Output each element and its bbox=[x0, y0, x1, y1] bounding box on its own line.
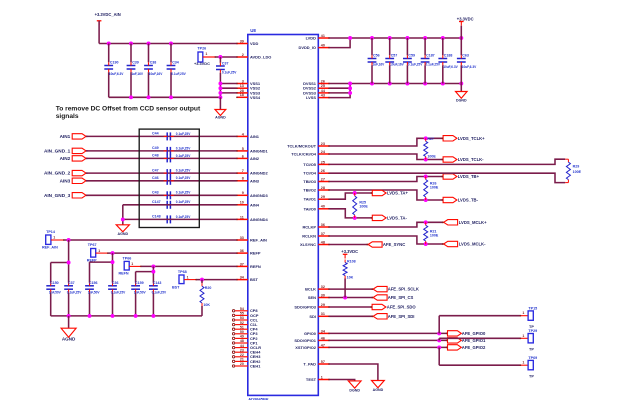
svg-text:1nF,50V: 1nF,50V bbox=[88, 291, 101, 295]
svg-text:TEST: TEST bbox=[306, 377, 317, 382]
svg-text:To remove DC Offset from CCD s: To remove DC Offset from CCD sensor outp… bbox=[56, 106, 201, 113]
svg-text:+3.3VDC: +3.3VDC bbox=[341, 249, 358, 254]
svg-text:C36: C36 bbox=[112, 281, 119, 285]
svg-text:25: 25 bbox=[321, 160, 325, 164]
svg-text:TP14: TP14 bbox=[46, 230, 56, 234]
svg-text:100E: 100E bbox=[430, 233, 439, 237]
svg-text:TCLK/MCKOUT: TCLK/MCKOUT bbox=[287, 144, 316, 149]
svg-text:SDI: SDI bbox=[309, 314, 316, 319]
svg-text:55: 55 bbox=[240, 312, 244, 316]
svg-text:AIN_GND_3: AIN_GND_3 bbox=[44, 193, 71, 198]
svg-text:LVDS_TB+: LVDS_TB+ bbox=[458, 174, 480, 179]
svg-text:1: 1 bbox=[522, 334, 524, 338]
svg-text:44: 44 bbox=[240, 344, 244, 348]
svg-text:10K: 10K bbox=[203, 303, 210, 307]
svg-text:10K: 10K bbox=[347, 276, 354, 280]
svg-text:C159: C159 bbox=[135, 281, 144, 285]
svg-text:AFE_SPI_SCLK: AFE_SPI_SCLK bbox=[388, 287, 419, 292]
svg-text:XLSYNC: XLSYNC bbox=[300, 242, 316, 247]
svg-text:C38: C38 bbox=[150, 60, 157, 64]
svg-text:36: 36 bbox=[240, 249, 244, 253]
svg-text:40: 40 bbox=[321, 205, 325, 209]
svg-text:LVDS_TCLK+: LVDS_TCLK+ bbox=[458, 136, 485, 141]
svg-text:10uF,6.3V: 10uF,6.3V bbox=[443, 65, 458, 69]
svg-text:25: 25 bbox=[321, 84, 325, 88]
svg-text:AIN2: AIN2 bbox=[250, 156, 260, 161]
svg-text:C49: C49 bbox=[152, 146, 159, 150]
svg-text:1: 1 bbox=[131, 262, 133, 266]
svg-text:+3.3VDC_AIN: +3.3VDC_AIN bbox=[95, 12, 121, 17]
svg-text:26: 26 bbox=[321, 169, 325, 173]
svg-text:LVDS_TA-: LVDS_TA- bbox=[387, 215, 407, 220]
svg-text:0.1uF,25V: 0.1uF,25V bbox=[176, 154, 191, 158]
svg-text:1nF,50V: 1nF,50V bbox=[49, 291, 62, 295]
svg-text:2: 2 bbox=[242, 53, 244, 57]
svg-text:0.1uF,25V: 0.1uF,25V bbox=[426, 62, 441, 66]
svg-text:LVDS_MCLK+: LVDS_MCLK+ bbox=[459, 220, 487, 225]
svg-text:TBI/O2: TBI/O2 bbox=[303, 188, 316, 193]
svg-text:C48: C48 bbox=[152, 154, 159, 158]
svg-text:AINGND4: AINGND4 bbox=[250, 217, 269, 222]
svg-text:41: 41 bbox=[321, 34, 325, 38]
svg-text:REFN: REFN bbox=[250, 264, 261, 269]
svg-text:1uF,16V: 1uF,16V bbox=[131, 72, 144, 76]
svg-text:28: 28 bbox=[321, 186, 325, 190]
svg-text:XST/GPIO2: XST/GPIO2 bbox=[295, 345, 317, 350]
svg-text:C57: C57 bbox=[391, 54, 398, 58]
svg-text:21: 21 bbox=[240, 358, 244, 362]
svg-text:100E: 100E bbox=[430, 185, 439, 189]
svg-text:LVDS_TCLK-: LVDS_TCLK- bbox=[458, 157, 484, 162]
svg-text:BST: BST bbox=[172, 286, 180, 290]
svg-text:57: 57 bbox=[321, 360, 325, 364]
svg-text:1: 1 bbox=[321, 375, 323, 379]
svg-text:10uF,16V: 10uF,16V bbox=[390, 62, 405, 66]
svg-text:GPIO0: GPIO0 bbox=[304, 331, 317, 336]
svg-text:C39: C39 bbox=[132, 60, 139, 64]
svg-text:CEH1: CEH1 bbox=[250, 363, 261, 368]
svg-text:10uF,6.3V: 10uF,6.3V bbox=[462, 65, 477, 69]
svg-text:40: 40 bbox=[321, 44, 325, 48]
svg-text:51: 51 bbox=[240, 325, 244, 329]
svg-text:29: 29 bbox=[321, 195, 325, 199]
svg-text:RCLKP: RCLKP bbox=[302, 225, 316, 230]
svg-text:53: 53 bbox=[240, 316, 244, 320]
svg-text:49: 49 bbox=[240, 335, 244, 339]
svg-text:C148: C148 bbox=[152, 215, 161, 219]
svg-text:U8: U8 bbox=[250, 28, 256, 33]
svg-text:TP66: TP66 bbox=[123, 256, 132, 260]
svg-text:1nF,50V: 1nF,50V bbox=[134, 291, 147, 295]
svg-text:31: 31 bbox=[321, 312, 325, 316]
svg-text:0.1uF,25V: 0.1uF,25V bbox=[176, 132, 191, 136]
svg-text:37: 37 bbox=[321, 232, 325, 236]
svg-text:10uF,6.3V: 10uF,6.3V bbox=[109, 72, 124, 76]
svg-text:22: 22 bbox=[240, 353, 244, 357]
svg-text:43: 43 bbox=[321, 94, 325, 98]
svg-text:0.1uF,25V: 0.1uF,25V bbox=[67, 291, 82, 295]
svg-text:C37: C37 bbox=[68, 281, 75, 285]
svg-text:37: 37 bbox=[240, 262, 244, 266]
svg-text:0.1uF,25V: 0.1uF,25V bbox=[408, 62, 423, 66]
svg-text:0.1uF,25V: 0.1uF,25V bbox=[171, 72, 186, 76]
svg-text:AGND: AGND bbox=[215, 116, 226, 120]
svg-text:1: 1 bbox=[522, 311, 524, 315]
svg-text:5: 5 bbox=[242, 147, 244, 151]
svg-text:AFE_SPI_CS: AFE_SPI_CS bbox=[388, 295, 414, 300]
svg-text:AGND: AGND bbox=[118, 232, 129, 236]
svg-text:TP68: TP68 bbox=[178, 270, 187, 274]
svg-text:C44: C44 bbox=[152, 132, 159, 136]
svg-text:27: 27 bbox=[321, 177, 325, 181]
svg-text:AINGND1: AINGND1 bbox=[250, 148, 269, 153]
svg-text:VSS4: VSS4 bbox=[250, 95, 261, 100]
svg-text:SDO/GPIO1: SDO/GPIO1 bbox=[294, 338, 316, 343]
svg-text:AIN2: AIN2 bbox=[60, 156, 71, 161]
svg-text:1uF,16V: 1uF,16V bbox=[372, 62, 385, 66]
svg-text:C59: C59 bbox=[408, 54, 415, 58]
svg-text:LVDD: LVDD bbox=[306, 36, 317, 41]
svg-text:50: 50 bbox=[240, 330, 244, 334]
svg-text:AFE_SPI_SDO: AFE_SPI_SDO bbox=[387, 305, 417, 310]
svg-text:AIN4: AIN4 bbox=[250, 202, 260, 207]
svg-text:36: 36 bbox=[321, 223, 325, 227]
svg-text:100E: 100E bbox=[573, 170, 582, 174]
svg-text:AIN_GND_1: AIN_GND_1 bbox=[44, 148, 71, 153]
svg-text:52: 52 bbox=[240, 321, 244, 325]
svg-text:1: 1 bbox=[98, 249, 100, 253]
svg-text:TP: TP bbox=[529, 374, 534, 378]
svg-text:C190: C190 bbox=[110, 60, 119, 64]
svg-text:AIN1: AIN1 bbox=[250, 134, 260, 139]
svg-text:BCLK: BCLK bbox=[305, 287, 316, 292]
svg-text:C43: C43 bbox=[152, 191, 159, 195]
svg-text:AGND: AGND bbox=[373, 388, 384, 392]
svg-text:R20: R20 bbox=[205, 286, 212, 290]
svg-text:BST: BST bbox=[250, 277, 258, 282]
svg-text:AIN_GND_2: AIN_GND_2 bbox=[44, 171, 71, 176]
svg-text:TAI/O1: TAI/O1 bbox=[304, 197, 317, 202]
svg-text:C143: C143 bbox=[153, 281, 162, 285]
svg-text:10: 10 bbox=[240, 201, 244, 205]
svg-text:DGND: DGND bbox=[349, 388, 360, 392]
svg-text:AFE_SYNC: AFE_SYNC bbox=[383, 242, 405, 247]
svg-text:DGND: DGND bbox=[456, 99, 467, 103]
svg-text:LVDS_MCLK-: LVDS_MCLK- bbox=[459, 242, 486, 247]
svg-text:AFE_GPIO0: AFE_GPIO0 bbox=[462, 331, 486, 336]
svg-text:AINGND3: AINGND3 bbox=[250, 193, 269, 198]
svg-text:C187: C187 bbox=[426, 54, 435, 58]
svg-text:48: 48 bbox=[321, 240, 325, 244]
svg-text:TP29: TP29 bbox=[528, 329, 537, 333]
svg-text:REF_AIN: REF_AIN bbox=[42, 246, 58, 250]
svg-text:LVDS_TA+: LVDS_TA+ bbox=[387, 191, 408, 196]
svg-text:29: 29 bbox=[321, 303, 325, 307]
svg-text:C56: C56 bbox=[373, 54, 380, 58]
svg-text:C156: C156 bbox=[89, 281, 98, 285]
svg-text:TP15: TP15 bbox=[528, 307, 537, 311]
svg-text:C63: C63 bbox=[462, 54, 469, 58]
svg-text:0.1uF,25V: 0.1uF,25V bbox=[176, 191, 191, 195]
svg-text:REFN: REFN bbox=[119, 272, 129, 276]
svg-text:0.1uF,25V: 0.1uF,25V bbox=[176, 215, 191, 219]
svg-text:100E: 100E bbox=[359, 205, 368, 209]
svg-text:TP: TP bbox=[529, 347, 534, 351]
svg-text:LVSS: LVSS bbox=[306, 95, 316, 100]
svg-text:18: 18 bbox=[240, 93, 244, 97]
svg-text:54: 54 bbox=[240, 307, 244, 311]
svg-text:R27: R27 bbox=[427, 137, 434, 141]
svg-text:7: 7 bbox=[242, 169, 244, 173]
svg-text:AFE_SPI_SDI: AFE_SPI_SDI bbox=[388, 314, 415, 319]
svg-text:0.1uF,25V: 0.1uF,25V bbox=[176, 146, 191, 150]
svg-text:RCLKN: RCLKN bbox=[302, 234, 316, 239]
svg-text:9: 9 bbox=[242, 191, 244, 195]
svg-text:10uF,16V: 10uF,16V bbox=[149, 72, 164, 76]
svg-text:20: 20 bbox=[240, 362, 244, 366]
svg-text:AFE_GPIO2: AFE_GPIO2 bbox=[462, 345, 486, 350]
svg-text:AIN1: AIN1 bbox=[60, 134, 71, 139]
svg-text:LVDS_TB-: LVDS_TB- bbox=[458, 198, 479, 203]
svg-text:1: 1 bbox=[53, 235, 55, 239]
svg-text:C47: C47 bbox=[152, 168, 159, 172]
svg-text:1: 1 bbox=[205, 52, 207, 56]
svg-text:0.1uF,25V: 0.1uF,25V bbox=[111, 291, 126, 295]
svg-text:DVDD_IO: DVDD_IO bbox=[298, 45, 316, 50]
svg-text:6: 6 bbox=[242, 154, 244, 158]
svg-text:R29: R29 bbox=[573, 164, 580, 168]
svg-text:TCI/O5: TCI/O5 bbox=[303, 162, 316, 167]
svg-text:TP67: TP67 bbox=[88, 243, 97, 247]
svg-text:28: 28 bbox=[240, 89, 244, 93]
svg-text:+3.3VDC: +3.3VDC bbox=[457, 16, 474, 21]
svg-text:32: 32 bbox=[321, 285, 325, 289]
svg-text:0.1uF,25V: 0.1uF,25V bbox=[176, 176, 191, 180]
svg-text:11: 11 bbox=[240, 215, 244, 219]
svg-text:signals: signals bbox=[56, 113, 79, 120]
svg-text:C37: C37 bbox=[222, 62, 229, 66]
svg-text:0.1uF,25V: 0.1uF,25V bbox=[176, 169, 191, 173]
svg-text:SDO/GPIO3: SDO/GPIO3 bbox=[294, 305, 316, 310]
svg-text:33: 33 bbox=[240, 236, 244, 240]
svg-text:39: 39 bbox=[240, 39, 244, 43]
svg-text:TBI/O3: TBI/O3 bbox=[303, 179, 316, 184]
svg-text:13: 13 bbox=[240, 84, 244, 88]
svg-text:+3.3VDC: +3.3VDC bbox=[194, 61, 210, 66]
svg-text:AGND: AGND bbox=[62, 336, 76, 341]
svg-text:AIN3: AIN3 bbox=[250, 178, 260, 183]
svg-text:100E: 100E bbox=[427, 154, 436, 158]
svg-text:8: 8 bbox=[242, 177, 244, 181]
svg-text:REFP: REFP bbox=[250, 251, 261, 256]
svg-text:46: 46 bbox=[321, 336, 325, 340]
svg-text:30: 30 bbox=[321, 293, 325, 297]
svg-text:TAI/O0: TAI/O0 bbox=[304, 206, 317, 211]
svg-text:C34: C34 bbox=[172, 60, 179, 64]
svg-text:C188: C188 bbox=[444, 54, 453, 58]
svg-text:AINGND2: AINGND2 bbox=[250, 171, 269, 176]
svg-text:0.1uF,25V: 0.1uF,25V bbox=[222, 70, 237, 74]
svg-text:C150: C150 bbox=[50, 281, 59, 285]
svg-text:R108: R108 bbox=[347, 259, 356, 263]
svg-text:TCI/O4: TCI/O4 bbox=[303, 171, 316, 176]
svg-text:SEN: SEN bbox=[308, 295, 316, 300]
svg-text:C46: C46 bbox=[152, 176, 159, 180]
svg-text:23: 23 bbox=[321, 142, 325, 146]
svg-text:23: 23 bbox=[240, 348, 244, 352]
svg-text:48: 48 bbox=[240, 339, 244, 343]
svg-text:47: 47 bbox=[321, 343, 325, 347]
svg-text:AD9845BK: AD9845BK bbox=[248, 396, 269, 400]
svg-text:0.1uF,25V: 0.1uF,25V bbox=[152, 291, 167, 295]
svg-text:VDD: VDD bbox=[250, 41, 258, 46]
svg-text:C147: C147 bbox=[152, 200, 161, 204]
svg-text:AIN3: AIN3 bbox=[60, 178, 71, 183]
svg-text:REF_AIN: REF_AIN bbox=[250, 238, 267, 243]
svg-text:TP69: TP69 bbox=[528, 356, 537, 360]
svg-text:1: 1 bbox=[522, 361, 524, 365]
svg-text:AVDD_LDO: AVDD_LDO bbox=[250, 55, 271, 60]
svg-text:3: 3 bbox=[242, 79, 244, 83]
svg-text:0.1uF,25V: 0.1uF,25V bbox=[176, 200, 191, 204]
svg-text:1: 1 bbox=[187, 275, 189, 279]
svg-text:26: 26 bbox=[321, 79, 325, 83]
svg-text:TCLK/CKI/O4: TCLK/CKI/O4 bbox=[291, 152, 317, 157]
svg-text:TP26: TP26 bbox=[197, 47, 206, 51]
svg-text:T_PAD: T_PAD bbox=[303, 362, 316, 367]
